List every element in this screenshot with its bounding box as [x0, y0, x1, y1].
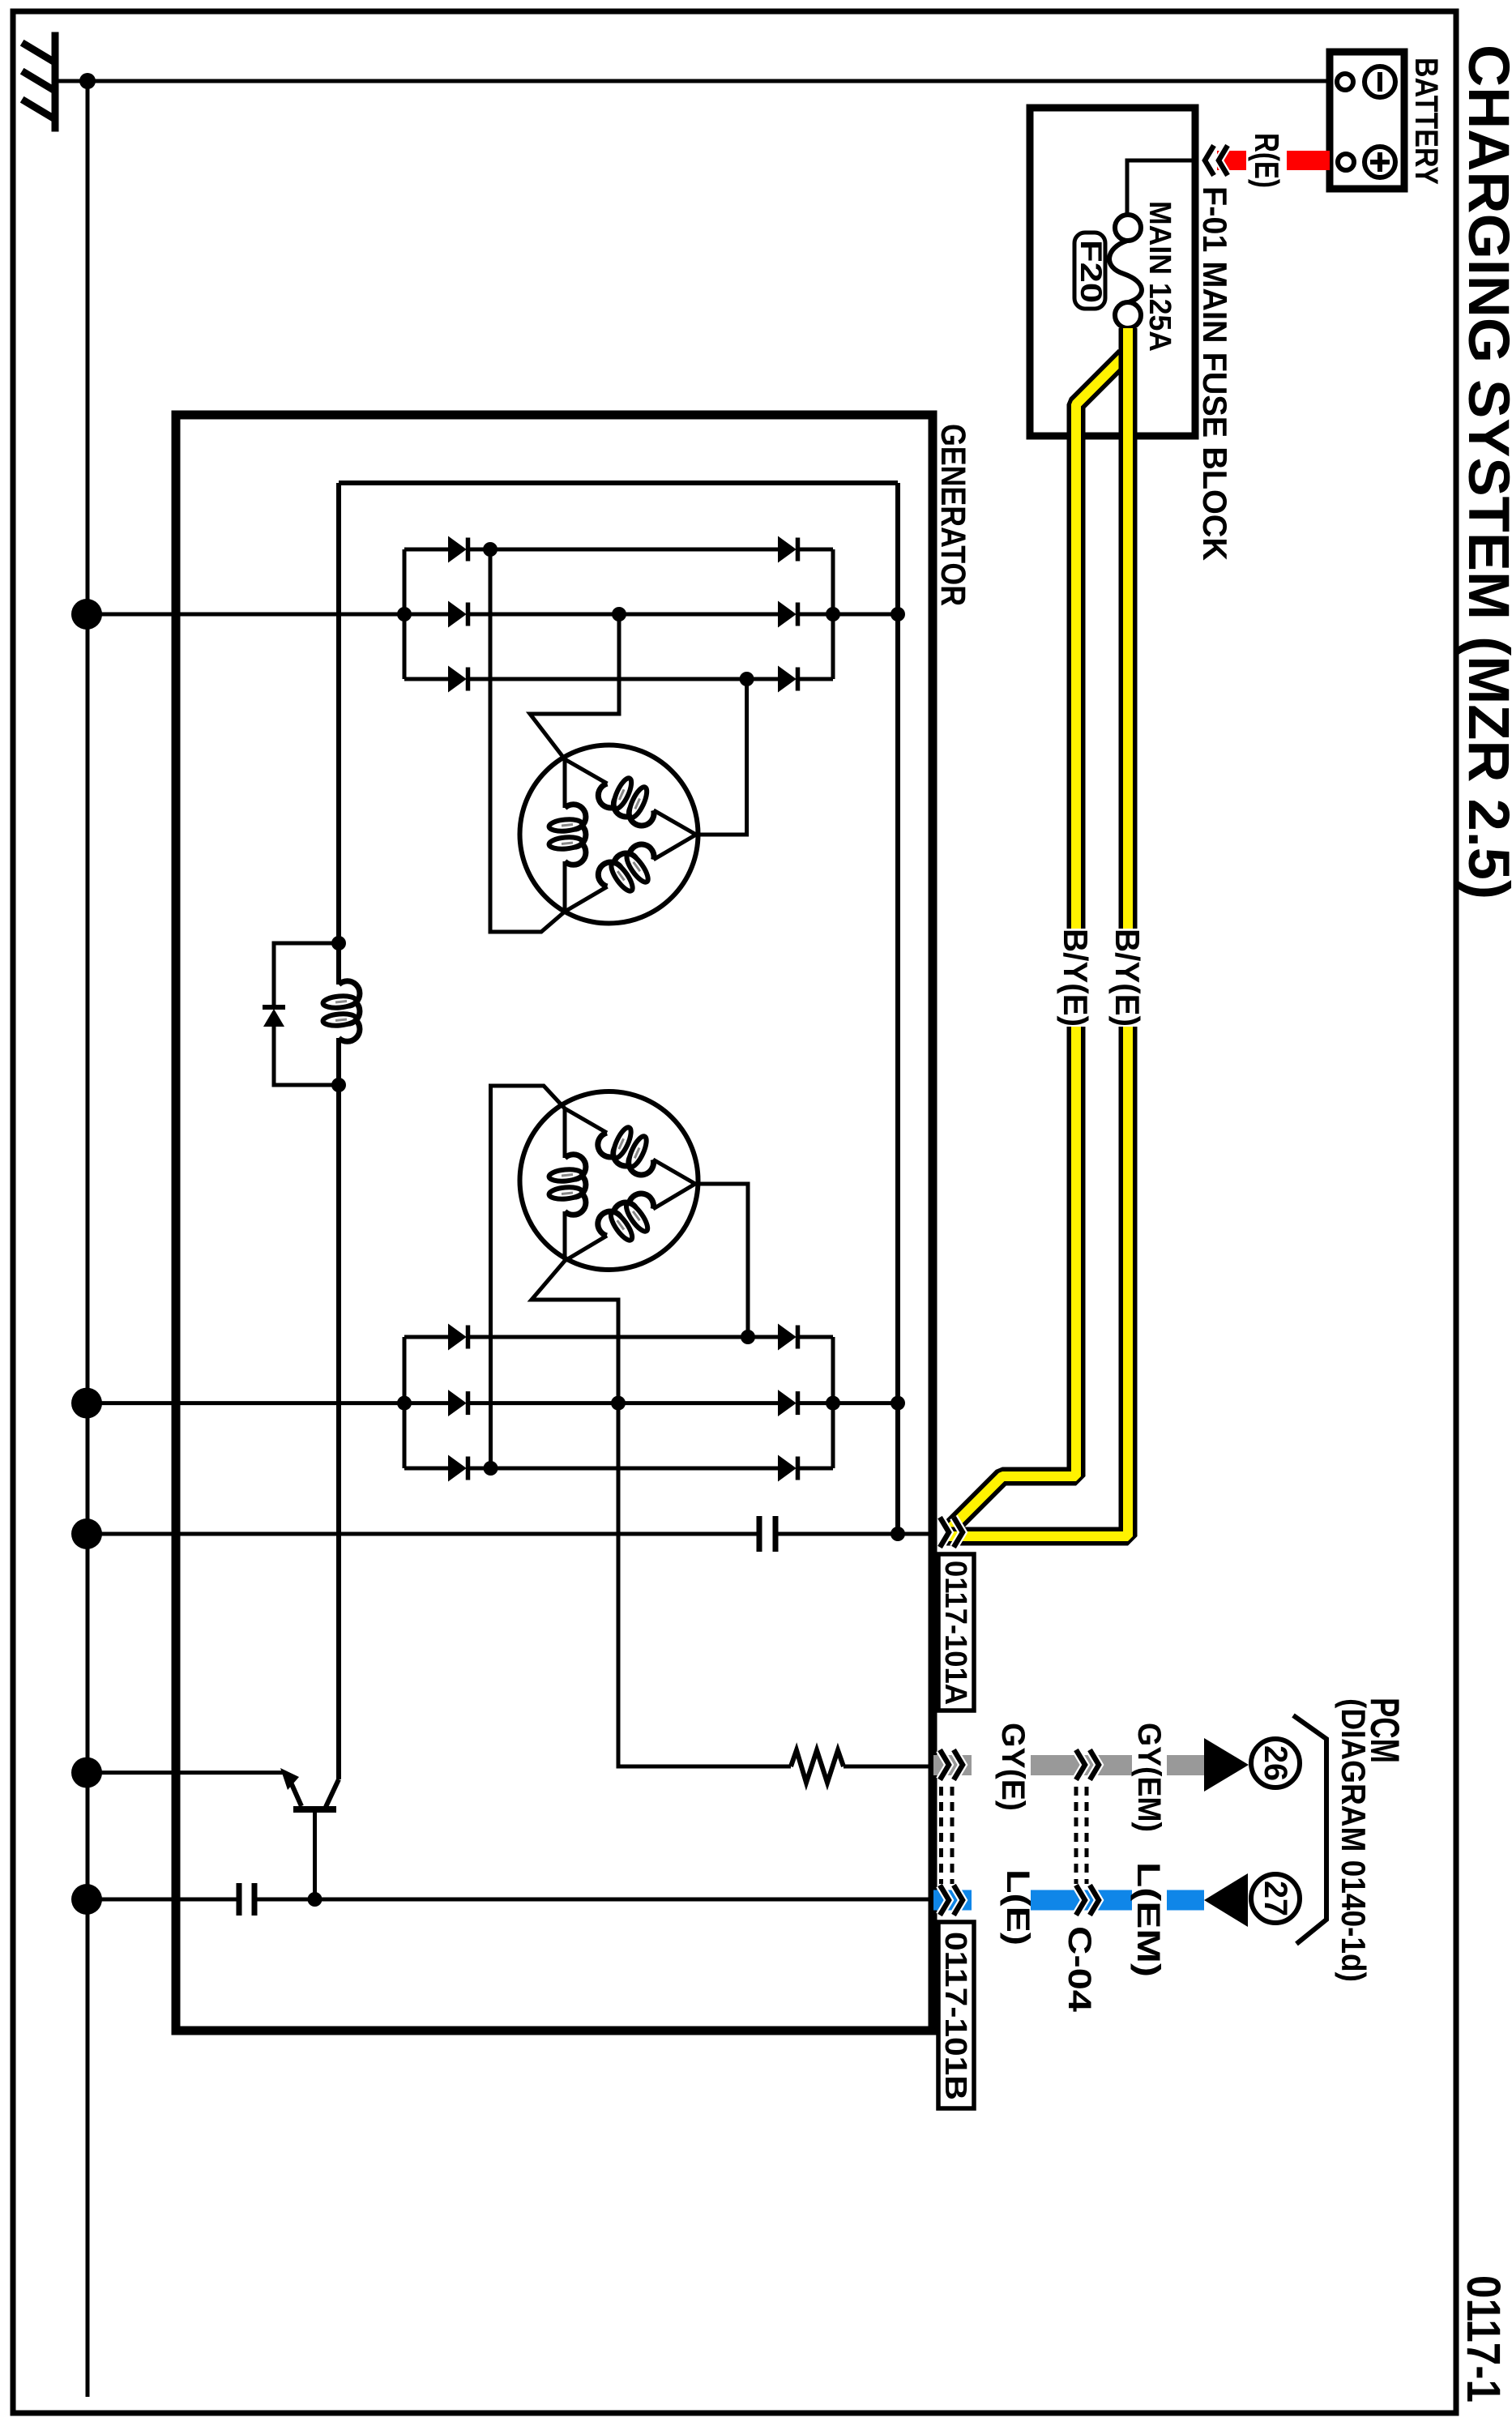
node: field bottom junction	[331, 1078, 346, 1092]
node B+ frame bottom	[891, 1527, 905, 1541]
diode D10	[449, 1391, 468, 1415]
wire: bridge1 row1 to stator1 V3	[490, 549, 565, 932]
wire: ground symbol to ground bus	[55, 79, 88, 83]
internal B+ frame: top edge	[339, 481, 898, 485]
battery BATTERY	[1330, 52, 1404, 189]
capacitor C1	[757, 1516, 762, 1552]
internal frame: left edge lower part to transistor collector	[336, 1038, 341, 1779]
bridge1 row1 wire	[404, 548, 449, 552]
diode D7	[779, 668, 798, 691]
field flyback diode D1	[274, 943, 339, 1006]
node bridge2 row1 junction	[741, 1330, 755, 1344]
wire R(E): battery plus to main fuse block (red)	[1287, 151, 1330, 170]
stator2 winding top	[593, 1117, 664, 1180]
wire: stator2 V2 to bridge2 row1	[695, 1184, 748, 1337]
svg-text:0117-101B: 0117-101B	[938, 1932, 972, 2100]
node: bus dot emitter line	[71, 1758, 102, 1788]
rectifier bridge 1 right bus	[831, 549, 835, 679]
svg-text:L(E): L(E)	[1000, 1869, 1036, 1945]
wire: stator2 V1 to bridge2 row3	[491, 1086, 566, 1468]
stator1 winding bottom	[594, 839, 665, 902]
svg-text:F20: F20	[1074, 240, 1108, 303]
bridge1 row3 wire	[404, 677, 449, 681]
stator2 winding left	[549, 1155, 586, 1215]
rectifier bridge 1 left bus	[403, 549, 407, 679]
connector chevron generator GY	[940, 1750, 963, 1780]
wire B/Y(E) right yellow: fuse to generator B terminal	[946, 328, 1128, 1536]
node row2 at B+ frame	[891, 607, 905, 621]
wire GY(E) gray	[933, 1755, 972, 1775]
svg-text:GENERATOR: GENERATOR	[933, 424, 972, 606]
pin 26 circle	[1251, 1739, 1300, 1787]
stator1 winding left	[549, 805, 586, 865]
svg-text:B/Y(E): B/Y(E)	[1057, 929, 1095, 1027]
node: bus dot base line	[71, 1884, 102, 1915]
connector chevron C-04 GY	[1076, 1750, 1099, 1780]
rectifier bridge 2 left bus	[403, 1337, 407, 1468]
internal B+ frame: right edge	[895, 483, 900, 1534]
diode D11	[779, 1391, 798, 1415]
diode D8	[449, 1326, 468, 1349]
stator2 delta bottom side	[565, 1236, 607, 1261]
rectifier bridge 2 right bus	[831, 1337, 835, 1468]
svg-text:B/Y(E): B/Y(E)	[1108, 929, 1147, 1027]
bridge2 row3 wire	[404, 1467, 449, 1471]
connector body dashed lines C-04	[1076, 1787, 1087, 1884]
wire: bridge1 row3 to stator1 V2	[696, 679, 747, 835]
battery plus symbol	[1365, 147, 1395, 177]
svg-text:GY(EM): GY(EM)	[1131, 1723, 1167, 1832]
node: ground junction dot	[79, 73, 96, 89]
wire: ground bus	[86, 81, 90, 2397]
battery terminal circle minus side	[1337, 74, 1353, 90]
diode D4	[449, 603, 468, 626]
node row2 right bus	[826, 607, 840, 621]
svg-text:26: 26	[1258, 1745, 1293, 1781]
ground (chassis) symbol	[25, 36, 55, 128]
connector B terminal chevron	[940, 1518, 963, 1548]
stator1 delta top side	[565, 759, 607, 784]
diode D9	[779, 1326, 798, 1349]
connector arrow into fuse block	[1205, 146, 1228, 176]
svg-text:27: 27	[1258, 1881, 1293, 1916]
capacitor C2	[237, 1883, 242, 1916]
wire: ground line to battery minus	[88, 79, 1330, 83]
PCM bracket	[1293, 1715, 1326, 1944]
generator box	[176, 415, 933, 2031]
node base junction	[308, 1892, 322, 1907]
node bridge2 row2 right bus	[826, 1396, 840, 1411]
battery minus symbol	[1365, 66, 1395, 97]
diode D12	[449, 1457, 468, 1480]
stator2 delta left side	[563, 1108, 567, 1158]
label F20	[1074, 233, 1105, 309]
pin 27 circle	[1251, 1874, 1300, 1923]
svg-text:0117-1: 0117-1	[1457, 2275, 1510, 2403]
base line with capacitor C2	[88, 1898, 239, 1902]
svg-text:CHARGING SYSTEM (MZR 2.5): CHARGING SYSTEM (MZR 2.5)	[1456, 45, 1512, 899]
bridge2 row2 ground feed wire	[88, 1401, 449, 1405]
transistor Q1 emitter wire	[88, 1770, 285, 1775]
main fuse block F-01	[1030, 108, 1195, 436]
node bridge1 left bus row2	[397, 607, 412, 621]
stator1 delta bottom side	[565, 886, 608, 912]
node: bus dot capacitor line	[71, 1518, 102, 1549]
wire inside fuse block	[1127, 160, 1195, 215]
stator2 winding bottom	[593, 1189, 664, 1251]
battery terminal circle plus side	[1338, 154, 1354, 170]
node row3 phase junction	[740, 672, 754, 686]
B+ sense line with capacitor C1	[88, 1532, 759, 1536]
internal frame: left edge upper part	[336, 483, 341, 984]
node row1 phase junction	[483, 542, 498, 557]
diode D5	[779, 603, 798, 626]
svg-text:F-01 MAIN FUSE BLOCK: F-01 MAIN FUSE BLOCK	[1196, 186, 1234, 561]
svg-text:R(E): R(E)	[1248, 133, 1286, 188]
stator1 delta left side	[563, 759, 567, 808]
diode D2	[449, 538, 468, 562]
diode D13	[779, 1457, 798, 1480]
svg-text:(DIAGRAM 0140-1d): (DIAGRAM 0140-1d)	[1335, 1698, 1373, 1982]
bridge1 row2 ground feed wire	[88, 613, 449, 617]
svg-text:BATTERY: BATTERY	[1408, 58, 1444, 185]
stator 2 circle	[520, 1091, 698, 1270]
wire: stator2 V3 to bridge2 row2 and regulator	[532, 1261, 791, 1766]
connector 0117-101A label	[938, 1554, 974, 1711]
node: field top junction	[331, 936, 346, 950]
node: bus dot rectifier2	[71, 1388, 102, 1419]
wire: bridge1 row2 to stator1 V1	[530, 614, 619, 759]
stator2 delta top side	[565, 1108, 607, 1133]
arrow to PCM pin 27	[1204, 1873, 1248, 1927]
node bridge2 row2 at B+ frame	[891, 1396, 905, 1411]
svg-text:MAIN 125A: MAIN 125A	[1143, 201, 1177, 352]
connector chevron C-04 L	[1076, 1886, 1099, 1916]
node bridge2 left bus row2	[397, 1396, 412, 1411]
connector body dashed lines 0117-101	[942, 1787, 953, 1884]
node bridge2 row3 phase junction	[484, 1461, 498, 1476]
wire B/Y(E) left yellow: fuse to generator B terminal	[950, 356, 1125, 1529]
connector chevron generator L	[940, 1886, 963, 1916]
stator1 winding top	[594, 768, 665, 831]
connector 0117-101B label	[938, 1922, 974, 2108]
resistor R1	[791, 1750, 844, 1783]
node row2 phase junction	[612, 607, 626, 621]
diode D3	[779, 538, 798, 562]
node bridge2 row2 phase junction	[611, 1396, 626, 1411]
bridge2 row1 wire	[404, 1335, 449, 1339]
svg-text:L(EM): L(EM)	[1130, 1862, 1166, 1977]
stator 1 circle	[520, 745, 698, 924]
wire L(E) blue	[933, 1890, 972, 1911]
diode D6	[449, 668, 468, 691]
field coil (rotor)	[322, 981, 360, 1042]
svg-text:C-04: C-04	[1061, 1926, 1097, 2013]
arrow to PCM pin 26	[1204, 1738, 1249, 1792]
transistor Q1	[288, 1777, 339, 1899]
node: bus dot rectifier1	[71, 599, 102, 630]
svg-text:GY(E): GY(E)	[995, 1723, 1031, 1811]
fuse F20 MAIN 125A	[1115, 215, 1141, 241]
svg-text:0117-101A: 0117-101A	[938, 1561, 972, 1705]
